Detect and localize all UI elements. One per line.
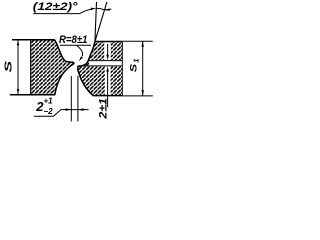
svg-text:(12±2)°: (12±2)° — [33, 1, 78, 13]
svg-text:1: 1 — [132, 59, 141, 63]
svg-text:+1: +1 — [44, 96, 54, 105]
svg-text:−2: −2 — [44, 107, 54, 116]
svg-text:2±1: 2±1 — [97, 98, 109, 120]
svg-text:S: S — [3, 60, 14, 72]
svg-text:S: S — [129, 63, 139, 72]
svg-text:R=8±1: R=8±1 — [59, 34, 88, 46]
